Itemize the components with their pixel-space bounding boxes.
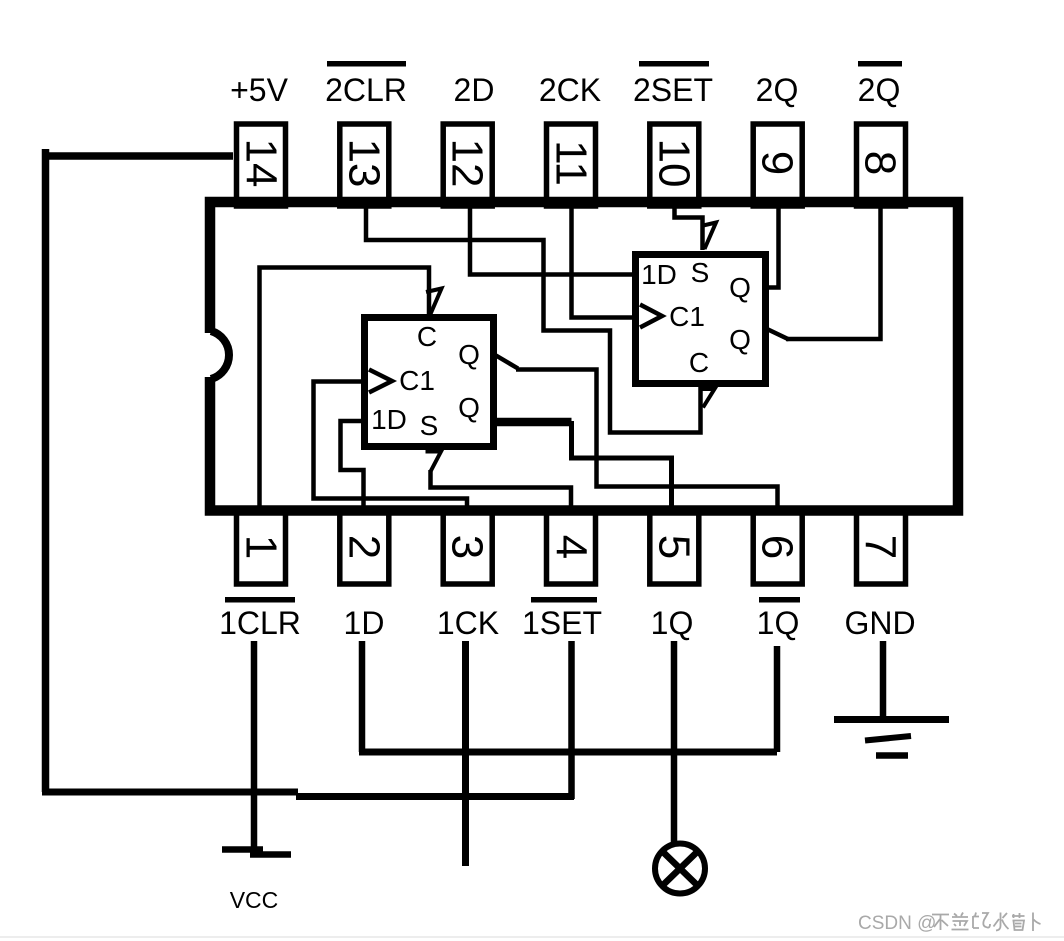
wire bottom rail segment 1 bbox=[42, 789, 298, 796]
svg-text:13: 13 bbox=[340, 139, 389, 188]
pin 11 bbox=[547, 124, 596, 206]
svg-text:6: 6 bbox=[753, 535, 802, 559]
FF2 Q-bar output flag bbox=[767, 329, 789, 340]
svg-text:Q: Q bbox=[458, 392, 480, 423]
wire pin8 2Q-bar to FF2 Q-bar bbox=[786, 204, 881, 339]
wire pin11 2CK to FF2 C1 bbox=[572, 204, 640, 318]
wire bottom rail segment 2 bbox=[296, 793, 574, 800]
pin 9 bbox=[753, 124, 803, 206]
svg-text:2CLR: 2CLR bbox=[325, 72, 407, 108]
svg-text:GND: GND bbox=[844, 605, 915, 641]
svg-text:2CK: 2CK bbox=[539, 72, 601, 108]
lamp L1 cross bbox=[663, 852, 697, 885]
svg-text:5: 5 bbox=[650, 535, 699, 559]
wire FF1 Q-bar to pin5 bbox=[572, 421, 672, 508]
wire pin13 2CLR to FF2 C bbox=[366, 204, 701, 433]
FF1 bottom edge flag (S input) bbox=[426, 452, 442, 472]
VCC terminal bar bbox=[222, 850, 291, 855]
net label 2SET (active low) bbox=[633, 61, 713, 108]
IC body U1 (14-pin DIP outline) bbox=[210, 202, 958, 511]
svg-text:C: C bbox=[689, 347, 709, 378]
svg-text:1SET: 1SET bbox=[522, 605, 602, 641]
watermark CSDN bbox=[858, 913, 1041, 935]
pin 8 bbox=[856, 124, 906, 206]
svg-text:VCC: VCC bbox=[230, 887, 279, 913]
svg-text:2SET: 2SET bbox=[633, 72, 713, 108]
pin 7 bbox=[856, 510, 906, 584]
svg-text:S: S bbox=[691, 257, 710, 288]
svg-text:7: 7 bbox=[856, 535, 905, 559]
svg-text:2Q: 2Q bbox=[858, 72, 901, 108]
lamp L1 circle bbox=[655, 844, 705, 894]
svg-text:+5V: +5V bbox=[230, 72, 288, 108]
svg-text:C: C bbox=[417, 321, 437, 352]
flip-flop FF1 box bbox=[365, 318, 494, 447]
wire FF1 Q-bar to pin5 (thick segment) bbox=[494, 418, 572, 427]
svg-text:4: 4 bbox=[547, 535, 596, 559]
wire 1CK external vertical bbox=[462, 641, 469, 866]
pin 6 bbox=[753, 510, 803, 584]
svg-text:1Q: 1Q bbox=[651, 605, 694, 641]
wire pin9 2Q to FF2 Q bbox=[766, 204, 779, 288]
footer hairline bbox=[0, 936, 1064, 938]
IC notch bbox=[211, 331, 229, 379]
ground symbol bar 2 bbox=[865, 736, 911, 741]
svg-text:1D: 1D bbox=[641, 259, 677, 290]
svg-text:1Q: 1Q bbox=[757, 605, 800, 641]
svg-text:Q: Q bbox=[729, 324, 751, 355]
wire 1Q-bar external vertical bbox=[774, 646, 781, 752]
pin 3 bbox=[443, 510, 493, 584]
ground symbol bar 1 bbox=[834, 716, 949, 723]
svg-text:1: 1 bbox=[237, 535, 286, 559]
svg-text:11: 11 bbox=[547, 140, 596, 186]
wire FF1 Q to pin6 bbox=[516, 370, 778, 509]
pin 5 bbox=[650, 510, 699, 584]
wire 1SET external vertical bbox=[568, 641, 575, 799]
wire +5V from pin 14 down left side bbox=[46, 149, 234, 792]
FF2 clock triangle bbox=[640, 305, 662, 328]
svg-text:1CK: 1CK bbox=[437, 605, 499, 641]
svg-text:C1: C1 bbox=[399, 365, 435, 396]
ground symbol bar 3 bbox=[876, 752, 908, 759]
net label 2CLR (active low) bbox=[325, 61, 407, 108]
wire 1CLR external to VCC bbox=[251, 641, 258, 852]
pin 12 bbox=[443, 124, 493, 206]
wire GND external vertical bbox=[880, 641, 887, 719]
pin 2 bbox=[340, 510, 389, 584]
FF1 clock triangle bbox=[369, 370, 392, 393]
wire 1D external vertical bbox=[359, 641, 366, 752]
svg-text:S: S bbox=[420, 410, 439, 441]
pin 13 bbox=[340, 124, 389, 206]
wire pin1 1CLR to FF1 C bbox=[260, 268, 430, 510]
wire pin2 1D to FF1 1D bbox=[341, 421, 364, 509]
pin 10 bbox=[650, 124, 699, 206]
net label 2Q-bar bbox=[858, 61, 902, 108]
FF2 top edge flag (S input) bbox=[701, 223, 716, 250]
net label 1Q-bar bbox=[757, 597, 800, 641]
net label 1CLR (active low) bbox=[219, 597, 301, 641]
svg-text:10: 10 bbox=[650, 139, 699, 188]
svg-text:1D: 1D bbox=[371, 404, 407, 435]
svg-text:C1: C1 bbox=[669, 301, 705, 332]
wire pin4 1SET to FF1 S bbox=[431, 470, 572, 508]
svg-text:12: 12 bbox=[443, 139, 492, 188]
wire 1D to 1Q-bar horizontal bbox=[359, 749, 777, 756]
wire pin10 2SET to FF2 S bbox=[675, 204, 703, 250]
FF1 Q output flag bbox=[496, 356, 518, 369]
net label 1SET (active low) bbox=[522, 597, 602, 641]
FF1 top edge flag (C input) bbox=[426, 289, 442, 315]
svg-text:8: 8 bbox=[856, 151, 905, 175]
pin 4 bbox=[547, 510, 596, 584]
flip-flop FF2 box bbox=[636, 255, 766, 384]
svg-text:3: 3 bbox=[443, 535, 492, 559]
svg-text:CSDN @: CSDN @ bbox=[858, 913, 936, 934]
svg-text:1CLR: 1CLR bbox=[219, 605, 301, 641]
svg-text:9: 9 bbox=[753, 151, 802, 175]
svg-text:2Q: 2Q bbox=[756, 72, 799, 108]
svg-text:2: 2 bbox=[340, 535, 389, 559]
svg-text:14: 14 bbox=[237, 139, 286, 188]
pin 14 bbox=[237, 124, 286, 206]
wire pin12 2D to FF2 1D bbox=[470, 204, 635, 275]
svg-text:Q: Q bbox=[458, 339, 480, 370]
wire 1Q external to lamp bbox=[671, 641, 678, 842]
FF2 bottom edge flag (C input) bbox=[700, 389, 715, 408]
svg-text:1D: 1D bbox=[344, 605, 385, 641]
svg-text:2D: 2D bbox=[454, 72, 495, 108]
pin 1 bbox=[237, 510, 286, 584]
svg-text:Q: Q bbox=[729, 272, 751, 303]
wire pin3 1CK to FF1 C1 bbox=[314, 382, 468, 509]
